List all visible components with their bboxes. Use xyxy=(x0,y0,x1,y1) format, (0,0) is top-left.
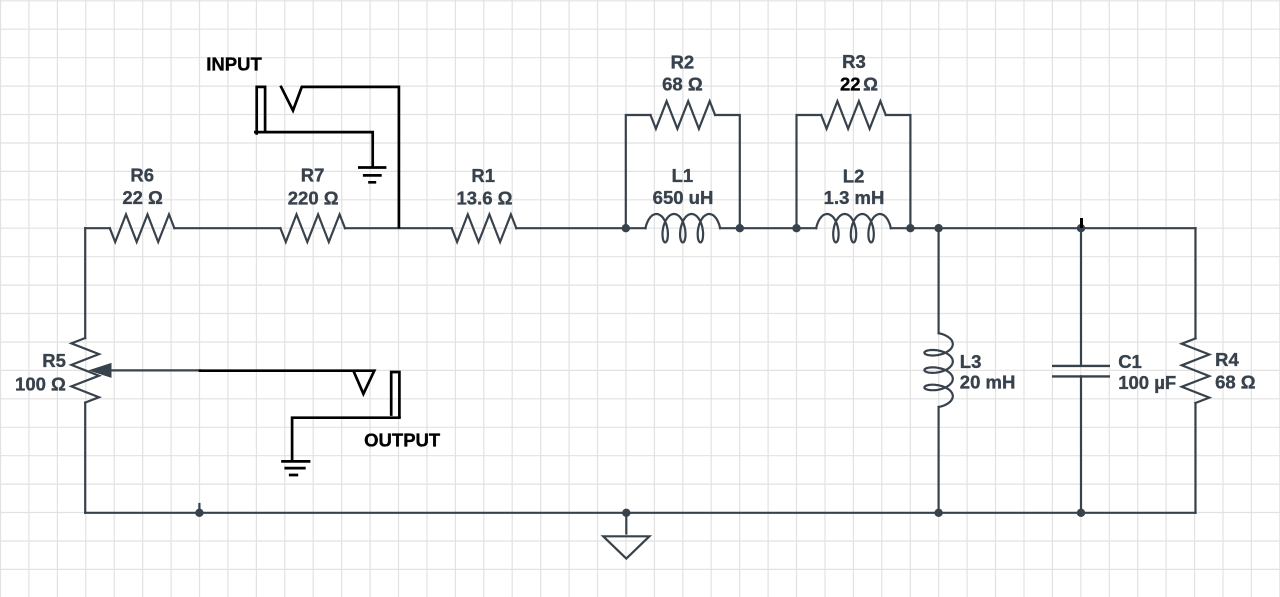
wire L1 to L2 xyxy=(720,227,816,229)
svg-text:C1: C1 xyxy=(1118,351,1142,372)
svg-text:220 Ω: 220 Ω xyxy=(288,187,339,208)
input jack ground xyxy=(358,168,386,183)
inductor L3 xyxy=(924,333,952,407)
input jack sleeve contact xyxy=(255,132,372,165)
svg-text:100 Ω: 100 Ω xyxy=(15,374,66,395)
junction bottom-left node xyxy=(195,509,203,517)
svg-text:R7: R7 xyxy=(301,165,325,186)
C1 branch lower xyxy=(1080,376,1082,512)
junction C1 top node xyxy=(1077,224,1085,232)
stub above bottom-left junction xyxy=(198,504,200,511)
junction L2-R3 right xyxy=(906,224,914,232)
svg-text:R4: R4 xyxy=(1215,349,1239,370)
svg-text:R2: R2 xyxy=(671,52,695,73)
wire R1 to L1 xyxy=(516,227,645,229)
junction L3 bottom node xyxy=(934,509,942,517)
capacitor C1 branch upper xyxy=(1080,228,1082,366)
svg-text:INPUT: INPUT xyxy=(206,54,262,75)
svg-text:R1: R1 xyxy=(471,165,495,186)
junction L1-R2 left xyxy=(622,224,630,232)
junction ground node xyxy=(622,509,630,517)
svg-text:68 Ω: 68 Ω xyxy=(662,74,703,95)
wiper wire xyxy=(109,369,200,371)
wire R6 to R7 xyxy=(174,227,280,229)
inductor L3 branch upper xyxy=(937,228,939,333)
output jack ground xyxy=(281,461,310,475)
svg-text:1.3 mH: 1.3 mH xyxy=(824,187,885,208)
resistor R1 xyxy=(452,214,517,242)
svg-text:650 uH: 650 uH xyxy=(653,187,714,208)
svg-text:100 µF: 100 µF xyxy=(1118,372,1176,393)
left rail upper xyxy=(84,228,86,338)
right rail lower xyxy=(1194,403,1196,513)
potentiometer R5 xyxy=(71,338,99,403)
svg-text:22Ω: 22Ω xyxy=(840,73,878,94)
resistor R4 xyxy=(1182,338,1210,403)
svg-text:13.6 Ω: 13.6 Ω xyxy=(457,187,513,208)
resistor R7 xyxy=(280,214,345,242)
inductor L2 xyxy=(816,214,891,242)
resistor R2 parallel branch rectangle xyxy=(626,115,651,228)
svg-text:L3: L3 xyxy=(960,351,982,372)
inductor L1 xyxy=(646,214,721,242)
ground (bottom center) xyxy=(625,513,627,535)
bottom rail xyxy=(85,512,1195,514)
output jack sleeve contact xyxy=(292,418,399,460)
capacitor C1 plates xyxy=(1052,366,1110,377)
resistor R3 parallel branch rectangle xyxy=(797,115,822,228)
wire L2 to top-right corner xyxy=(891,227,1196,229)
svg-text:R5: R5 xyxy=(42,350,66,371)
left rail lower xyxy=(84,403,86,513)
input jack tip contact with V xyxy=(281,87,399,227)
svg-text:OUTPUT: OUTPUT xyxy=(364,430,441,451)
svg-text:20 mH: 20 mH xyxy=(960,372,1016,393)
output jack plug body xyxy=(391,372,399,416)
R5 wiper arrow xyxy=(90,364,111,378)
right rail upper xyxy=(1194,228,1196,338)
input jack plug body xyxy=(257,87,265,133)
junction L3 top node xyxy=(934,224,942,232)
svg-text:L1: L1 xyxy=(672,165,694,186)
svg-text:68 Ω: 68 Ω xyxy=(1215,371,1256,392)
svg-text:22 Ω: 22 Ω xyxy=(122,187,163,208)
output jack tip contact with V xyxy=(200,371,374,394)
wire R7 to R1 (input tap at x=398.9) xyxy=(345,227,452,229)
junction C1 bottom node xyxy=(1077,509,1085,517)
svg-text:R6: R6 xyxy=(130,165,154,186)
wire top rail left segment xyxy=(85,227,110,229)
junction L1-R2 right xyxy=(736,224,744,232)
L3 branch lower xyxy=(937,407,939,513)
svg-text:R3: R3 xyxy=(842,51,866,72)
resistor R6 xyxy=(110,214,175,242)
svg-text:L2: L2 xyxy=(843,166,865,187)
black tick above C1 junction xyxy=(1080,218,1083,228)
junction L2-R3 left xyxy=(792,224,800,232)
